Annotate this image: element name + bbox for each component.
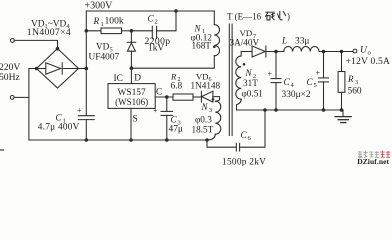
terminal AC input 1 [11,39,15,43]
svg-text:3A/40V: 3A/40V [230,38,260,48]
junction C2 right at top rail [174,9,178,13]
svg-text:+: + [268,69,273,78]
svg-text:C: C [284,77,291,87]
node +300V top rail wire [86,10,214,12]
svg-text:UF4007: UF4007 [89,53,120,63]
svg-text:R: R [93,16,100,26]
winding N1 (primary) [213,11,215,25]
svg-text:4.7μ 400V: 4.7μ 400V [38,123,80,133]
svg-text:1: 1 [101,21,104,28]
svg-text:18.5T: 18.5T [192,125,214,135]
diode VD6 1N4148 (pointing left) [200,91,202,102]
winding N2 (secondary) [240,52,242,57]
wire AC2 to bridge left vertex and down to bottom rail [14,96,29,98]
svg-text:6.8: 6.8 [171,81,183,91]
svg-text:1N4007×4: 1N4007×4 [27,27,71,38]
junction L/C5 [322,50,326,54]
junction C1 bottom at rail [85,138,89,142]
svg-text:1500p 2kV: 1500p 2kV [222,157,266,166]
junction N3/C6 at bottom rail [205,138,209,142]
svg-text:S: S [133,115,138,125]
junction R3 bottom [340,108,344,112]
svg-text:): ) [287,12,290,22]
scan artifact bottom-left [0,149,4,151]
junction bridge top vertex [56,47,60,51]
svg-text:C: C [171,115,178,125]
wire bridge right vertex to +300V bus [79,68,87,70]
svg-text:1kV: 1kV [148,43,164,53]
svg-text:C: C [156,88,162,98]
svg-text:D: D [134,74,141,84]
label +300V [85,0,114,11]
junction C6 at secondary rail [263,108,267,112]
resistor R2 6.8 [173,94,193,100]
junction C4 bottom [274,108,278,112]
svg-text:+: + [153,106,158,115]
junction drain node [130,66,134,70]
wire drain node down to IC D pin [130,68,132,83]
inductor L 33u [284,47,319,52]
svg-text:VD: VD [240,28,253,38]
resistor R3 560 [341,52,343,72]
svg-text:1N4148: 1N4148 [191,80,221,90]
diode VD5 UF4007 (vertical, cathode up) [130,31,132,43]
svg-text:3: 3 [209,107,212,114]
wire +300V vertical bus (bridge + to C1 to bottom rail) [85,11,87,115]
svg-text:DZiuf.net: DZiuf.net [357,157,389,166]
capacitor C1 4.7u 400V [78,115,94,117]
svg-text:C: C [56,113,63,123]
junction VD7 cathode / C4 [274,50,278,54]
svg-text:(WS106): (WS106) [115,97,148,107]
svg-text:IC: IC [114,74,123,84]
svg-text:φ0.51: φ0.51 [242,88,264,98]
IC WS157 (WS106) box [108,84,155,109]
terminal output Uo [353,49,357,53]
svg-text:C: C [307,77,314,87]
diode VD7 3A/40V [241,51,252,53]
transformer core [228,24,230,136]
capacitor C2 2200p 1kV [131,30,152,32]
svg-text:330μ×2: 330μ×2 [282,90,311,100]
svg-text:+12V 0.5A: +12V 0.5A [346,57,390,67]
transformer T label [227,12,262,22]
svg-text:L: L [281,36,287,46]
resistor R1 100k [86,30,101,32]
phase dot N3 [212,98,215,101]
wire IC S pin to bottom rail [130,108,132,140]
node secondary ground rail [237,109,344,111]
wire AC1 to bridge top [14,40,57,48]
junction C3 top [165,95,169,99]
terminal AC input 2 [10,96,14,100]
svg-text:33μ: 33μ [295,37,309,47]
svg-text:+: + [316,69,321,78]
junction R1 left at bus [85,29,89,33]
svg-text:N: N [245,68,253,78]
svg-text:3: 3 [355,79,358,86]
svg-text:560: 560 [348,87,362,97]
svg-text:C: C [148,13,155,23]
svg-text:50Hz: 50Hz [0,72,20,83]
junction R3 top [340,50,344,54]
svg-text:5: 5 [314,82,317,89]
ground symbol [342,110,344,116]
label 220V 50Hz [0,62,20,83]
winding N3 (feedback) [215,101,221,134]
node primary negative bottom rail [29,139,207,141]
svg-text:+300V: +300V [85,0,114,11]
capacitor C3 47u [166,97,168,111]
watermark dianzikaifa shequ DZiuf.net [357,151,390,166]
capacitor C5 330u [323,52,325,78]
junction C5 bottom [322,108,326,112]
capacitor C6 1500p 2kV (Y-cap) [207,140,236,147]
svg-text:o: o [368,49,371,56]
wire drain node to N1 bottom [131,56,214,68]
svg-text:T (E—16: T (E—16 [227,12,262,22]
svg-text:+: + [77,106,82,115]
svg-text:100k: 100k [105,15,124,26]
wire IC C pin [155,96,173,98]
label VD1~VD4 1N4007x4 [27,20,71,38]
capacitor C4 330u [275,52,277,79]
svg-text:φ0.3: φ0.3 [195,115,212,125]
svg-text:47μ: 47μ [169,125,183,135]
phase dot N2 [243,63,246,66]
junction R1/C2/VD5 node [130,29,134,33]
svg-text:C: C [241,130,248,140]
phase dot N1 [213,46,216,49]
junction bridge left vertex [35,67,39,71]
svg-text:R: R [347,74,354,84]
bridge rectifier VD1~VD4 diamond [37,49,79,89]
label cixin (CJK glyphs drawn) [266,11,286,20]
diode inside bridge [37,68,46,70]
svg-text:N: N [201,102,209,112]
svg-text:R: R [170,71,177,81]
svg-text:VD: VD [96,41,110,51]
svg-text:2: 2 [155,18,158,25]
junction at bus [85,67,89,71]
svg-text:31T: 31T [243,78,258,88]
svg-text:168T: 168T [192,40,212,50]
